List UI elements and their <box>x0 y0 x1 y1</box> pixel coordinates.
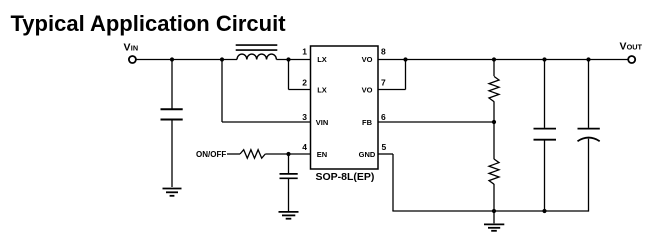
svg-text:3: 3 <box>302 112 307 122</box>
wire divider middle <box>493 101 495 159</box>
wire output cap 2 top <box>588 60 590 128</box>
wire EN cap bottom <box>288 179 290 211</box>
svg-text:8: 8 <box>381 47 386 57</box>
wire input cap top <box>171 60 173 109</box>
junction FB <box>492 120 496 124</box>
svg-text:6: 6 <box>381 112 386 122</box>
junction divider bottom <box>492 209 496 213</box>
wire ON/OFF to resistor <box>227 153 240 155</box>
wire input cap bottom <box>171 120 173 187</box>
junction VIN pin branch <box>220 57 224 61</box>
svg-text:VO: VO <box>362 55 373 64</box>
svg-text:1: 1 <box>302 47 307 57</box>
wire ground stub <box>493 211 495 223</box>
terminal VOUT <box>628 56 635 63</box>
wire inductor to LX <box>276 59 311 61</box>
svg-text:LX: LX <box>317 85 327 94</box>
wire VO pin 7 <box>378 60 406 90</box>
svg-text:7: 7 <box>381 77 386 87</box>
svg-text:V: V <box>620 40 627 52</box>
svg-text:4: 4 <box>302 142 307 152</box>
wire to LX pin 2 <box>289 60 312 90</box>
junction output cap 2 top <box>586 57 590 61</box>
resistor divider lower <box>489 159 499 184</box>
wire to VIN pin 3 <box>222 60 311 123</box>
svg-text:IN: IN <box>131 43 138 52</box>
svg-text:LX: LX <box>317 55 327 64</box>
node VIN label <box>124 41 139 53</box>
svg-text:ON/OFF: ON/OFF <box>196 150 226 159</box>
resistor EN series <box>240 150 265 159</box>
ground input cap <box>163 189 182 196</box>
svg-text:5: 5 <box>382 142 387 152</box>
svg-text:V: V <box>124 41 131 53</box>
node VOUT label <box>620 40 643 52</box>
wire FB pin 6 <box>378 121 494 123</box>
junction input cap <box>170 57 174 61</box>
wire output cap 1 top <box>544 60 546 128</box>
inductor core bars <box>236 45 278 50</box>
junction divider top <box>492 57 496 61</box>
svg-text:2: 2 <box>302 77 307 87</box>
ground main <box>484 224 504 230</box>
svg-text:VO: VO <box>362 85 373 94</box>
wire EN cap top <box>288 154 290 173</box>
wire resistor to EN pin 4 <box>265 153 311 155</box>
capacitor output 2 polarized <box>578 129 600 142</box>
inductor coil <box>237 54 276 59</box>
wire VIN rail to inductor <box>136 59 237 61</box>
capacitor output 1 <box>534 129 557 140</box>
svg-text:GND: GND <box>359 150 376 159</box>
wire output cap 2 bottom <box>588 139 590 212</box>
wire divider top <box>493 60 495 77</box>
junction VO pins <box>403 57 407 61</box>
svg-text:Typical Application Circuit: Typical Application Circuit <box>11 11 287 36</box>
capacitor EN <box>280 174 298 178</box>
svg-text:VIN: VIN <box>316 118 329 127</box>
capacitor input <box>161 109 183 119</box>
wire divider bottom <box>493 184 495 211</box>
junction output cap 1 top <box>542 57 546 61</box>
svg-text:SOP-8L(EP): SOP-8L(EP) <box>316 171 375 183</box>
junction output cap 1 bottom <box>542 209 546 213</box>
wire output cap 1 bottom <box>544 141 546 212</box>
resistor divider upper <box>489 76 499 101</box>
svg-text:EN: EN <box>317 150 327 159</box>
svg-text:FB: FB <box>362 118 373 127</box>
wire GND pin 5 to ground rail <box>378 154 589 211</box>
svg-text:OUT: OUT <box>627 42 643 51</box>
op-amp U1 SOP-8L(EP) body <box>311 46 379 169</box>
ground EN cap <box>279 212 299 219</box>
junction LX <box>286 57 290 61</box>
junction EN <box>286 152 290 156</box>
wire VO rail to VOUT <box>378 59 628 61</box>
terminal VIN <box>129 56 136 63</box>
